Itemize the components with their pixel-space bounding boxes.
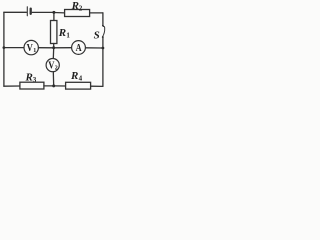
node right junction [102,47,105,50]
svg-text:4: 4 [79,74,83,82]
wire V2 to bottom node [52,72,54,86]
battery cell long plate [26,7,28,16]
svg-text:R: R [58,27,66,39]
voltmeter V2 circle [46,59,59,72]
node bottom junction [52,84,55,87]
wire mid node to ammeter A [54,47,71,49]
wire left side [3,12,5,86]
wire right side upper to switch [102,13,104,25]
wire left node to voltmeter V1 [4,47,24,49]
wire R1 to mid node [53,44,55,48]
node left junction [3,46,6,49]
node top junction [52,11,55,14]
wire R2 to top right corner [90,12,103,14]
resistor R1 body [51,21,57,44]
wire top node to R2 [54,12,65,14]
wire top node down to R1 [53,12,55,20]
resistor R3 body [20,82,44,89]
svg-text:R: R [25,72,33,84]
switch S blade [102,26,104,37]
svg-text:2: 2 [79,4,83,12]
wire right node down to bottom corner [102,48,104,86]
svg-text:3: 3 [33,76,37,84]
battery cell short thick plate [30,9,32,14]
svg-text:A: A [76,42,82,54]
voltmeter V1 circle [24,40,38,54]
svg-text:2: 2 [55,66,58,72]
resistor R4 body [66,82,91,89]
svg-text:1: 1 [66,32,70,40]
wire bottom left corner to R3 [4,85,20,87]
svg-text:R: R [71,0,79,12]
svg-text:R: R [70,70,78,82]
wire battery to top node [32,11,54,13]
wire V1 to mid node [38,47,53,49]
wire top left to battery [4,11,27,13]
wire bottom node to R4 [54,85,66,87]
svg-text:S: S [94,29,100,41]
svg-text:1: 1 [33,48,36,54]
switch contact lower [102,36,104,38]
wire A to right node [86,47,103,49]
wire R3 to bottom node [44,85,54,87]
node mid junction [52,46,55,49]
ammeter A circle [72,41,86,55]
wire R4 to bottom right corner [91,85,103,87]
switch contact upper [102,25,104,27]
wire mid node down to voltmeter V2 [52,48,54,59]
resistor R2 body [65,10,90,17]
wire switch to right node [102,37,104,48]
